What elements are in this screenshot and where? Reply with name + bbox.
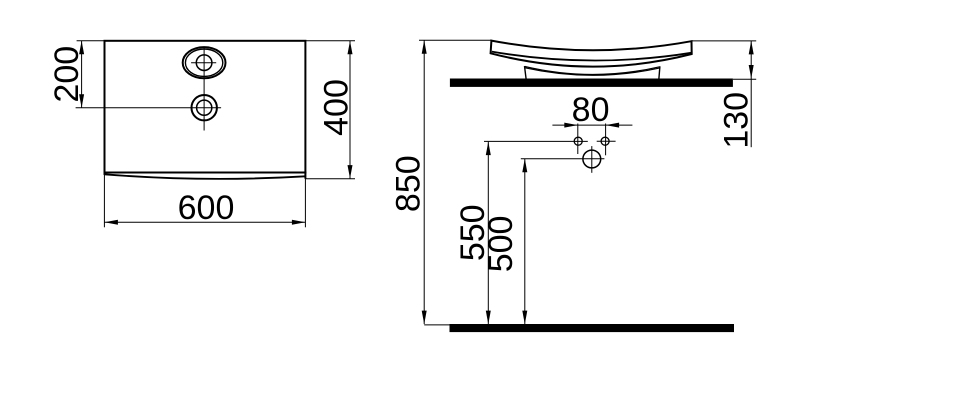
dimension 850 line <box>423 40 425 324</box>
svg-text:500: 500 <box>482 216 520 273</box>
dimension 600 arrow right <box>292 220 306 225</box>
drain circle side view <box>583 150 601 168</box>
faucet platform outer ellipse <box>183 47 226 78</box>
dimension 550 arrow up <box>486 142 491 156</box>
tap hole left circle <box>574 137 582 145</box>
svg-text:400: 400 <box>317 79 355 136</box>
dimension 200 line <box>81 41 83 108</box>
svg-text:600: 600 <box>178 189 235 227</box>
basin top-view outline <box>105 41 306 173</box>
dimension 850 arrow down <box>422 311 427 325</box>
dimension 400 arrow down <box>348 165 353 179</box>
dimension 600 line <box>104 221 305 223</box>
dimension 80 extension left <box>577 124 579 155</box>
dimension 400 extension bottom <box>306 178 355 180</box>
tap hole right circle <box>601 137 609 145</box>
dimension 400 line <box>349 41 351 179</box>
basin side profile outer <box>491 41 692 67</box>
dimension 850 extension top <box>419 39 491 41</box>
dimension 400 arrow up <box>348 41 353 55</box>
faucet hole circle <box>196 55 212 71</box>
dimension 500 arrow down <box>522 311 527 325</box>
drain leader line <box>76 107 222 109</box>
faucet hole crosshair horizontal <box>191 62 216 64</box>
dimension 600 extension left <box>103 175 105 228</box>
svg-text:130: 130 <box>717 92 755 149</box>
svg-text:200: 200 <box>48 46 86 103</box>
svg-text:80: 80 <box>572 91 610 129</box>
drain outer circle <box>192 95 217 120</box>
dimension 500 arrow up <box>522 159 527 173</box>
dimension 550 leader <box>484 140 588 142</box>
dimension 80 extension right <box>605 124 607 156</box>
tap hole right crosshair <box>597 140 616 142</box>
floor bar <box>450 324 735 332</box>
dimension 500 leader <box>521 158 605 160</box>
basin foot lower curve <box>525 68 659 76</box>
dimension 130 line <box>750 41 752 147</box>
dimension 130 arrow up <box>749 41 754 55</box>
dimension 850 extension bottom <box>424 324 450 326</box>
centerline vertical <box>203 47 205 130</box>
basin foot left edge <box>525 66 527 80</box>
dimension 80 arrow left <box>606 123 620 128</box>
dimension 400 extension top <box>306 40 355 42</box>
dimension 130 arrow down <box>749 65 754 79</box>
dimension 550 arrow down <box>486 311 491 325</box>
dimension 200 arrow down <box>79 94 84 108</box>
dimension 500 line <box>524 159 526 324</box>
dimension 200 extension top <box>77 40 105 42</box>
basin side rim middle curve <box>492 52 691 61</box>
svg-text:850: 850 <box>390 155 428 212</box>
dimension 200 arrow up <box>79 41 84 55</box>
faucet platform inner ellipse <box>185 49 222 76</box>
dimension 130 extension top <box>692 40 756 42</box>
dimension 600 arrow left <box>104 220 118 225</box>
dimension 600 extension right <box>304 177 306 227</box>
dimension 80 arrow right <box>564 123 578 128</box>
dimension 80 line <box>552 124 632 126</box>
basin foot right edge <box>659 66 660 80</box>
basin foot upper curve <box>525 67 660 75</box>
dimension 850 arrow up <box>422 40 427 54</box>
dimension 550 line <box>487 142 489 325</box>
basin front lip curve <box>104 174 305 179</box>
basin outline left edge lower stub <box>104 172 106 175</box>
basin outline right edge lower stub <box>304 172 306 179</box>
drain inner circle <box>197 100 212 115</box>
drain circle crosshair vertical <box>591 146 593 173</box>
countertop bar <box>450 79 733 87</box>
dimension 130 extension mid <box>733 78 756 80</box>
